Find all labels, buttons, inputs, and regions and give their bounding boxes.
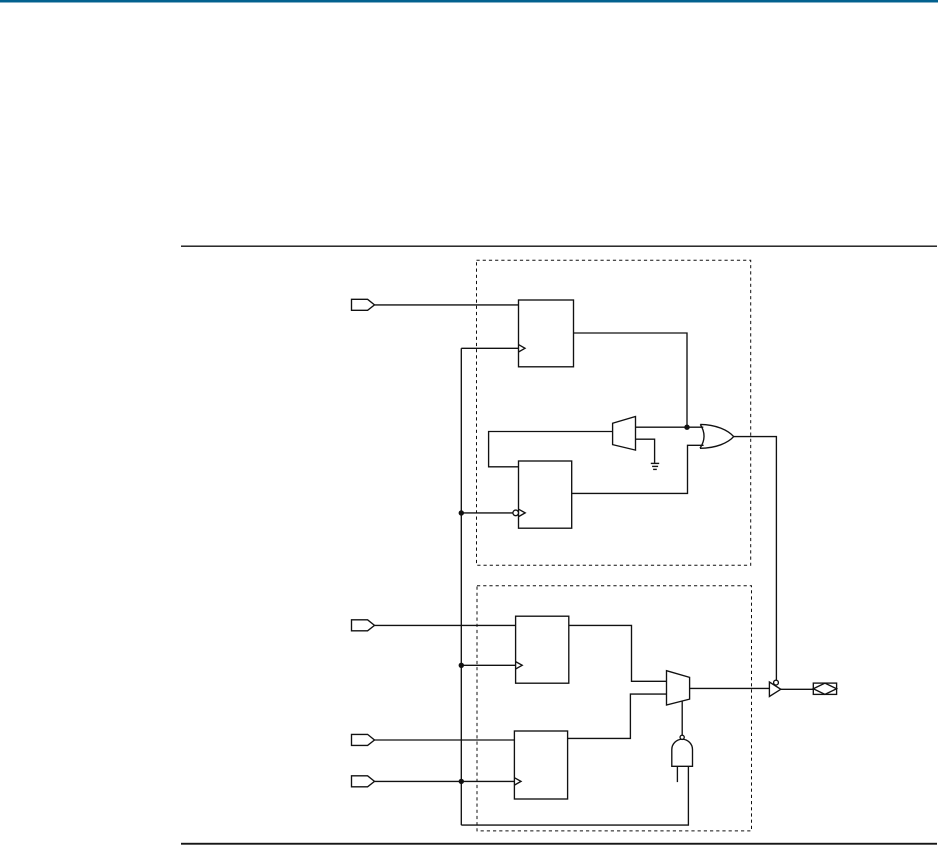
mux MUX1	[613, 417, 636, 451]
wire MUX1 input B to ground	[636, 439, 655, 463]
input pad C (clock)	[352, 776, 375, 787]
dashed box DDR output block 2	[477, 586, 752, 831]
header rule	[181, 246, 937, 247]
wire MUX1 output to FF2 D	[489, 432, 613, 467]
wire MUX1 input A from node A to OR input	[636, 426, 704, 428]
wire FF2 Q to OR input	[572, 445, 704, 493]
flip-flop FF4	[514, 731, 567, 799]
ground	[651, 463, 659, 469]
wire node C to FF3 clk	[461, 664, 515, 666]
node A junction dot	[684, 425, 689, 430]
node C junction dot	[459, 663, 464, 668]
output pad O	[813, 683, 836, 694]
footer rule	[181, 843, 937, 845]
wire buffer to output pad	[781, 688, 814, 690]
dashed box DDR output block 1	[477, 260, 751, 565]
tristate buffer U1	[769, 680, 780, 696]
wire clock net vertical	[460, 348, 462, 825]
header bar	[0, 0, 938, 3]
input pad I1	[352, 299, 375, 310]
mux MUX2	[667, 671, 690, 705]
flip-flop FF3	[516, 616, 569, 683]
wire node B to FF2 clk bubble	[461, 512, 513, 514]
wire clock to FF1 clk	[461, 347, 518, 349]
input pad I3	[352, 734, 375, 745]
wire pad I3 to FF4 D	[375, 739, 515, 741]
node D junction dot	[459, 779, 464, 784]
nand gate G2	[672, 735, 693, 766]
wire FF1 Q to node A	[574, 333, 688, 427]
wire MUX2 output to buffer	[690, 687, 770, 689]
wire pad I1 to FF1 D	[375, 304, 519, 306]
wire MUX2 select from NAND	[681, 701, 683, 735]
wire FF3 Q to MUX2 input A	[569, 625, 667, 681]
flip-flop FF1	[519, 300, 574, 367]
wire FF4 Q to MUX2 input B	[568, 694, 667, 738]
input pad I2	[352, 620, 375, 631]
or-gate G1	[700, 424, 734, 448]
wire G2 left input stub	[676, 766, 678, 782]
wire pad I2 to FF3 D	[375, 624, 516, 626]
wire pad C to FF4 clk	[375, 780, 515, 782]
flip-flop FF2	[513, 461, 572, 528]
wire G1 output to buffer enable	[734, 437, 777, 681]
wire G2 right input to clock net	[461, 766, 688, 825]
node B junction dot	[459, 510, 464, 515]
